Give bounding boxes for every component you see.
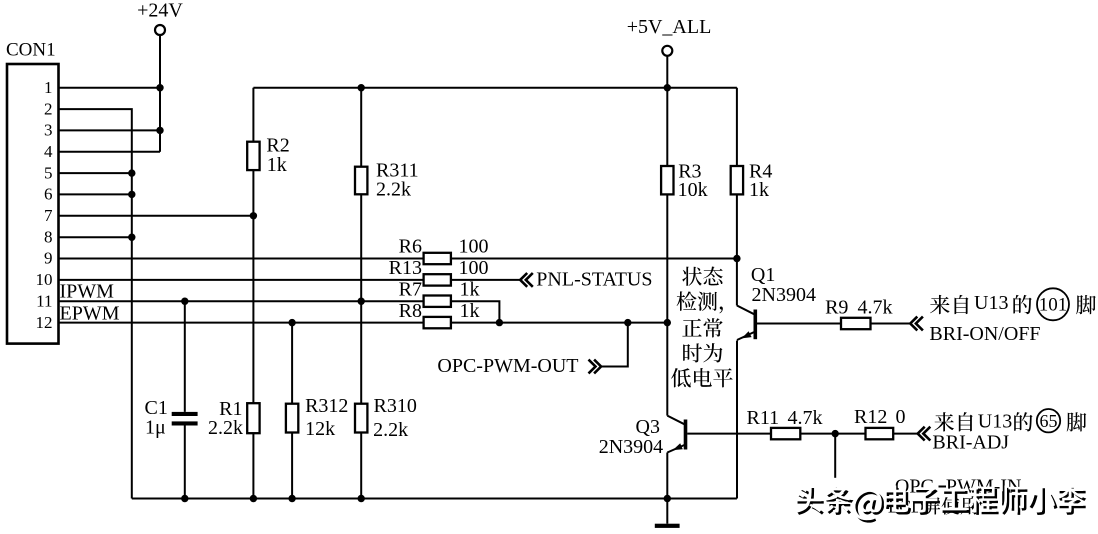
wire R311 bottom to R310 top bbox=[360, 194, 362, 403]
svg-text:+24V: +24V bbox=[137, 0, 183, 22]
+24V power terminal bbox=[155, 25, 165, 35]
watermark toutiao badge bbox=[797, 488, 823, 515]
transistor Q3 bbox=[667, 416, 685, 425]
junction +24V/pin1 bbox=[156, 84, 163, 91]
svg-text:7: 7 bbox=[44, 206, 53, 225]
junction R312/bottom bus bbox=[288, 495, 295, 502]
wire R2 bottom to R1 top bbox=[252, 170, 254, 403]
svg-text:R6: R6 bbox=[399, 236, 422, 258]
svg-text:R11: R11 bbox=[747, 407, 780, 429]
junction top bus/R311 bbox=[358, 84, 365, 91]
resistor R13 bbox=[424, 274, 451, 285]
svg-text:R7: R7 bbox=[399, 279, 422, 301]
svg-text:IPWM: IPWM bbox=[60, 281, 115, 303]
svg-text:100: 100 bbox=[459, 236, 489, 258]
svg-text:2.2k: 2.2k bbox=[373, 419, 408, 441]
wire top bus R2 to R4 bbox=[253, 87, 737, 89]
svg-text:PNL-STATUS: PNL-STATUS bbox=[536, 268, 652, 290]
wire Q3 base to R11 bbox=[687, 433, 771, 435]
wire pin 8 bbox=[59, 236, 132, 238]
wire R310 bottom lead bbox=[360, 433, 362, 499]
wire R12 to BRI-ADJ bbox=[893, 433, 918, 435]
wire Q1 base to R9 bbox=[757, 323, 841, 325]
resistor R4 bbox=[731, 166, 743, 194]
wire pin 2 bbox=[59, 109, 132, 498]
svg-text:BRI-ADJ: BRI-ADJ bbox=[932, 432, 1009, 454]
junction +5V/top bus bbox=[664, 84, 671, 91]
junction pin5/bus bbox=[128, 169, 135, 176]
svg-text:0: 0 bbox=[896, 406, 906, 428]
svg-text:1k: 1k bbox=[460, 279, 480, 301]
svg-text:8: 8 bbox=[44, 227, 53, 246]
note status-detect text block bbox=[682, 267, 702, 286]
svg-text:2N3904: 2N3904 bbox=[599, 436, 663, 458]
wire pin 10 left of R13 bbox=[59, 279, 424, 281]
node PNL-STATUS port bbox=[520, 273, 533, 287]
resistor R310 bbox=[355, 404, 367, 433]
transistor Q1 bbox=[736, 259, 738, 306]
svg-text:4.7k: 4.7k bbox=[858, 297, 893, 319]
wire C1 top lead bbox=[184, 301, 186, 412]
svg-text:U13: U13 bbox=[974, 292, 1008, 314]
ground symbol bbox=[655, 524, 680, 528]
wire R3 bottom down to Q3 collector bbox=[666, 194, 668, 415]
svg-text:11: 11 bbox=[36, 291, 52, 310]
svg-text:2N3904: 2N3904 bbox=[752, 284, 816, 306]
junction R11-R12/OPC-PWM-IN stub bbox=[832, 430, 839, 437]
label from-U13-pin-101 line bbox=[930, 295, 950, 314]
svg-text:Q3: Q3 bbox=[636, 416, 660, 438]
wire bottom ground bus bbox=[132, 498, 737, 500]
+5V_ALL power terminal bbox=[662, 46, 672, 56]
svg-text:12k: 12k bbox=[305, 418, 335, 440]
svg-text:R312: R312 bbox=[305, 395, 348, 417]
wire pin 1 to +24V bbox=[59, 87, 161, 89]
svg-text:100: 100 bbox=[459, 257, 489, 279]
wire pin 3 bbox=[59, 129, 161, 131]
junction Q3 emitter/bus bbox=[664, 495, 671, 502]
resistor R1 bbox=[247, 403, 259, 433]
svg-text:4: 4 bbox=[44, 142, 53, 161]
svg-text:EPWM: EPWM bbox=[60, 303, 120, 325]
resistor R8 bbox=[424, 317, 451, 328]
wire pin 11 left of R7 bbox=[59, 300, 424, 302]
svg-text:9: 9 bbox=[44, 249, 53, 268]
resistor R9 bbox=[841, 318, 871, 329]
svg-text:4.7k: 4.7k bbox=[788, 407, 823, 429]
node BRI-ON/OFF port bbox=[910, 317, 923, 331]
resistor R11 bbox=[771, 428, 800, 439]
wire R4 top lead bbox=[736, 88, 738, 166]
svg-text:R13: R13 bbox=[389, 257, 422, 279]
svg-text:1μ: 1μ bbox=[145, 417, 166, 439]
svg-text:R310: R310 bbox=[374, 395, 417, 417]
svg-text:2.2k: 2.2k bbox=[208, 417, 243, 439]
svg-text:Q1: Q1 bbox=[751, 264, 775, 286]
wire R312 bottom lead bbox=[291, 433, 293, 499]
junction pin11/C1 bbox=[181, 298, 188, 305]
svg-text:2: 2 bbox=[44, 99, 53, 118]
junction R1/bottom bus bbox=[250, 495, 257, 502]
svg-text:BRI-ON/OFF: BRI-ON/OFF bbox=[929, 323, 1040, 345]
svg-text:1k: 1k bbox=[749, 179, 769, 201]
svg-text:3: 3 bbox=[44, 121, 53, 140]
label from-U13-pin-65 line bbox=[934, 412, 954, 431]
svg-text:1k: 1k bbox=[460, 300, 480, 322]
junction pin12/R312 bbox=[288, 319, 295, 326]
wire R13 to PNL-STATUS bbox=[451, 279, 520, 281]
resistor R311 bbox=[355, 167, 367, 195]
wire pin 7 to R2/R1 node bbox=[59, 215, 254, 217]
svg-text:1k: 1k bbox=[267, 154, 287, 176]
svg-text:5: 5 bbox=[44, 163, 53, 182]
resistor R6 bbox=[424, 253, 451, 264]
wire +24V rail down to pin4 bbox=[159, 36, 161, 152]
wire OPC-PWM-OUT stub bbox=[601, 323, 628, 367]
junction pin7/R2 bbox=[250, 212, 257, 219]
svg-text:+5V_ALL: +5V_ALL bbox=[627, 16, 712, 38]
wire OPC-PWM-IN stub down bbox=[834, 434, 836, 478]
svg-text:OPC-PWM-OUT: OPC-PWM-OUT bbox=[437, 355, 578, 377]
svg-text:CON1: CON1 bbox=[6, 40, 56, 61]
wire R311 top lead bbox=[360, 88, 362, 167]
svg-text:10: 10 bbox=[36, 270, 53, 289]
junction pin8/bus bbox=[128, 234, 135, 241]
wire pin 6 bbox=[59, 193, 132, 195]
wire R3 top lead bbox=[666, 88, 668, 166]
resistor R312 bbox=[286, 404, 298, 433]
junction +24V/pin3 bbox=[156, 127, 163, 134]
junction R7/R8 outputs bbox=[496, 319, 503, 326]
wire pin 4 bbox=[59, 151, 161, 153]
svg-text:65: 65 bbox=[1040, 411, 1058, 431]
junction pin6/bus bbox=[128, 191, 135, 198]
wire pin 5 bbox=[59, 172, 132, 174]
svg-text:6: 6 bbox=[44, 185, 53, 204]
svg-text:R12: R12 bbox=[854, 406, 887, 428]
wire pin 9 left of R6 bbox=[59, 258, 424, 260]
wire R4 bottom lead bbox=[736, 194, 738, 258]
junction C1/bottom bus bbox=[181, 495, 188, 502]
junction R8 net/+5V column bbox=[664, 319, 671, 326]
resistor R7 bbox=[424, 296, 451, 307]
svg-text:12: 12 bbox=[36, 313, 53, 332]
wire R1 bottom lead bbox=[252, 433, 254, 498]
wire R8 output to +5V column bbox=[451, 322, 667, 324]
wire R312 top lead bbox=[291, 323, 293, 404]
node BRI-ADJ port bbox=[918, 427, 931, 441]
wire C1 bottom lead bbox=[184, 426, 186, 499]
resistor R12 bbox=[866, 428, 894, 439]
junction OPC stub bbox=[624, 319, 631, 326]
connector CON1 box bbox=[7, 64, 59, 344]
svg-text:R9: R9 bbox=[825, 297, 848, 319]
capacitor C1 bbox=[172, 412, 198, 416]
resistor R2 bbox=[247, 142, 259, 170]
svg-text:1: 1 bbox=[44, 78, 53, 97]
wire R7 output down to EPWM net bbox=[451, 301, 500, 322]
wire pin 12 left of R8 bbox=[59, 322, 424, 324]
svg-text:U13: U13 bbox=[978, 410, 1012, 432]
wire R9 to BRI-ON/OFF bbox=[871, 323, 911, 325]
wire ground stem bbox=[666, 499, 668, 524]
resistor R3 bbox=[661, 166, 673, 194]
svg-text:2.2k: 2.2k bbox=[376, 179, 411, 201]
junction pin11/R311-R310 bbox=[358, 298, 365, 305]
svg-text:10k: 10k bbox=[678, 179, 708, 201]
junction R310/bottom bus bbox=[358, 495, 365, 502]
wire +5V_ALL drop bbox=[666, 56, 668, 87]
wire R2 top lead bbox=[252, 88, 254, 142]
wire R11 to R12 bbox=[800, 433, 865, 435]
svg-text:101: 101 bbox=[1039, 295, 1068, 316]
wire R6 to R4 node bbox=[451, 258, 737, 260]
junction pin9/R4 node bbox=[733, 255, 740, 262]
svg-text:R8: R8 bbox=[399, 300, 422, 322]
